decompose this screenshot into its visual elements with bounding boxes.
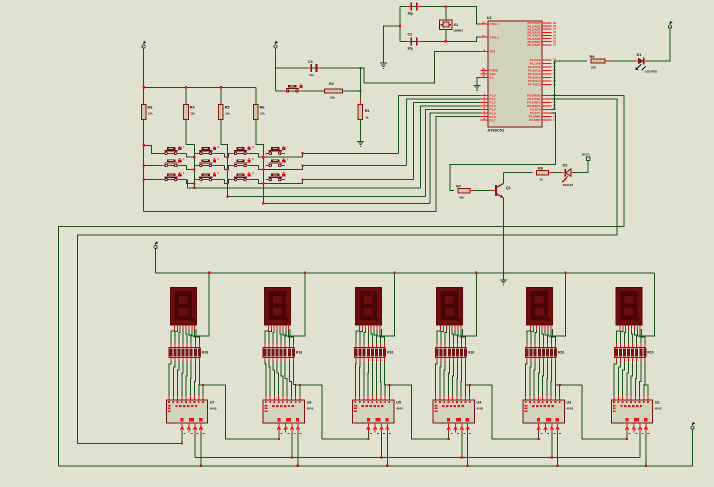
svg-text:4543: 4543 [566,407,573,411]
resistor R7 [456,185,470,200]
wire RN2 to U6 [265,357,300,399]
wire P3.0 frame outer [59,95,624,466]
wire display 5 pins fan [527,325,555,347]
wire rail tap display 1 [196,272,210,337]
wire display 2 pins fan [265,325,293,347]
node row2 junctions [193,164,303,170]
svg-text:R8: R8 [538,167,543,171]
svg-text:R16: R16 [202,351,208,355]
wire column 3 [221,120,228,197]
wire L3 [263,202,430,204]
crystal X1 [440,20,464,33]
svg-text:10u: 10u [309,73,314,77]
wire left vertical [399,7,401,42]
wire display 6 pins fan [616,325,644,347]
wire to ground [383,26,400,63]
wire bus1 [195,457,640,459]
node L1-col2 [193,187,195,189]
svg-text:4543: 4543 [476,407,483,411]
wire row2 left [144,165,162,167]
node row3-col1 [143,179,145,181]
wire L4 [144,211,437,213]
svg-text:1k: 1k [365,116,369,120]
transistor Q1 [492,184,511,198]
wire P3.4 to R9 [552,61,587,110]
wire column 4 [256,120,263,204]
resistor R8 [536,167,548,182]
svg-text:AT89C51: AT89C51 [487,128,505,133]
button keypad r1c1 [161,145,185,155]
svg-text:U5: U5 [396,401,401,405]
node crystal-C2 junction [445,40,447,42]
wire R1 bottom [359,120,361,142]
svg-text:U7: U7 [210,401,215,405]
resistor network RN1 [169,347,208,357]
wire RN5 to U3 [526,357,560,399]
op-amp U4 latch-decoder [433,400,483,423]
wire U2 chain-in [626,432,628,440]
resistor network RN4 [435,347,474,357]
wire U5 to bus2 [386,432,388,467]
wire R8 to D2 [548,172,560,174]
wire RN4 to U4 [436,357,470,399]
node row3 junctions [193,179,303,185]
wire RN6 to U2 [614,357,648,399]
button keypad r3c3 [231,171,255,181]
wire cascade U7 to U6 [202,384,279,439]
power terminal keypad [142,41,146,48]
svg-text:30p: 30p [408,12,414,16]
wire P1.5 bus [430,113,480,203]
resistor R2 [325,82,343,100]
wire P1.2 bus [413,102,480,179]
wire keypad row 2 [161,166,406,170]
display DS3 7-segment [356,288,382,326]
node row1 junctions [193,152,303,158]
node row2-col1 [143,164,145,166]
svg-text:R16: R16 [296,351,302,355]
svg-text:-: - [287,171,288,175]
wire XTAL2 bottom [400,37,481,41]
wire U6 bottom pins [277,423,301,434]
svg-text:4543: 4543 [396,407,403,411]
svg-text:RST: RST [490,50,496,54]
wire bus2 riser [692,429,694,466]
button keypad r1c4 [265,145,288,155]
op-amp U5 latch-decoder [353,400,403,423]
button keypad r2c4 [265,157,289,167]
display DS1 7-segment [170,288,196,326]
wire U6 chain-in [278,432,280,440]
ground R1 [357,141,364,147]
wire RN3 to U5 [355,357,389,399]
display DS5 7-segment [527,288,553,326]
wire rail tap display 2 [290,272,306,337]
capacitor C3 [307,60,321,77]
wire L2 [228,196,426,198]
svg-text:P3.7/RD: P3.7/RD [529,118,541,122]
svg-text:1k: 1k [540,178,544,182]
svg-text:10k: 10k [459,196,464,200]
svg-text:R16: R16 [647,351,653,355]
svg-text:D2: D2 [563,164,568,168]
wire R2 row [276,90,361,92]
svg-text:XTAL1: XTAL1 [490,22,500,26]
wire C3 row [276,67,361,69]
wire P1.3 bus [420,106,480,188]
wire anode rail [156,272,655,274]
wire U2 to bus1 [639,432,641,457]
wire column 2 [186,120,194,188]
svg-text:X1: X1 [454,23,459,27]
wire cascade U6 to U5 [299,384,369,439]
svg-text:R2: R2 [329,82,334,86]
wire U6 to bus2 [297,432,299,467]
wire rail tap display 3 [381,272,395,337]
wire U5 chain-in [367,432,369,440]
node row1-col1 [143,144,145,146]
button keypad r2c3 [231,157,255,167]
svg-text:R3: R3 [148,106,153,110]
wire U7 to bus1 [194,432,196,457]
wire P3.5 to R7 [450,113,556,191]
wire R7 to base [470,190,492,192]
svg-text:P0.7/AD7: P0.7/AD7 [527,43,540,47]
wire U7 bottom pins [180,423,204,434]
wire column 1 [143,120,145,212]
node rail junctions [143,86,222,88]
resistor network RN6 [615,347,654,357]
op-amp U1 AT89C51 MCU [480,15,556,133]
svg-text:R16: R16 [558,351,564,355]
wire U4 to bus2 [467,432,469,467]
display DS2 7-segment [264,288,290,326]
wire U3 bottom pins [537,423,561,434]
power terminal LED [668,21,672,28]
power terminal reset [274,41,278,48]
wire cascade U3 to U2 [559,384,627,439]
button keypad r3c2 [196,171,220,181]
resistor network RN2 [263,347,302,357]
svg-text:U3: U3 [566,401,571,405]
wire U5 to bus1 [380,432,382,458]
diode D2 [561,164,575,188]
resistor R1 [358,99,369,124]
wire cascade U5 to U4 [388,384,448,439]
op-amp U2 latch-decoder [611,400,661,423]
ground Q1 [500,280,507,286]
wire U2 to bus2 [645,432,647,467]
wire U7 chain-in [181,432,183,444]
terminal BUZ1 [582,153,590,161]
wire U2 bottom pins [625,423,649,434]
svg-text:1N4148: 1N4148 [563,183,574,187]
svg-text:C2: C2 [408,33,413,37]
wire RN1 to U7 [169,357,203,399]
wire U4 chain-in [448,432,450,440]
wire keypad row 3 [161,180,413,184]
wire keypad row 1 [161,153,399,157]
wire P3.1 frame inner [77,99,617,444]
svg-text:P1.7: P1.7 [490,118,497,122]
wire U6 to bus1 [291,432,293,458]
svg-text:U1: U1 [487,15,493,20]
svg-text:R16: R16 [468,351,474,355]
ground EA [473,85,480,91]
wire display vcc [155,249,157,273]
wire row3 left [144,179,162,181]
svg-text:D1: D1 [637,53,642,57]
op-amp U3 latch-decoder [523,400,573,423]
op-amp U6 latch-decoder [263,400,313,423]
resistor R5 [219,87,231,123]
wire display 3 pins fan [356,325,384,347]
svg-text:Q1: Q1 [506,186,511,190]
wire U3 chain-in [538,432,540,440]
svg-text:30p: 30p [408,47,414,51]
svg-text:R16: R16 [387,351,393,355]
svg-text:C3: C3 [308,60,313,64]
wire rail tap display 5 [552,272,566,337]
wire P1.4 bus [426,110,481,197]
svg-text:/: / [287,145,288,149]
wire vcc down [275,48,277,91]
svg-text:R1: R1 [365,109,370,113]
svg-text:R5: R5 [225,106,230,110]
svg-text:BUZ1: BUZ1 [582,153,590,157]
op-amp U7 latch-decoder [166,400,216,423]
node L3-col4 [262,202,264,204]
svg-text:10k: 10k [225,112,230,116]
button reset [283,84,303,93]
svg-text:12MHZ: 12MHZ [453,29,463,33]
wire vcc keypad [143,48,145,87]
svg-text:LED-RED: LED-RED [645,70,657,74]
svg-text:4543: 4543 [210,407,217,411]
button keypad r2c2 [196,157,220,167]
node crystal-C1 junction [445,5,447,7]
wire crystal top [445,7,447,21]
wire bus2 [59,465,693,467]
button keypad r3c4 [265,171,288,181]
svg-text:U2: U2 [655,401,660,405]
svg-text:4543: 4543 [655,407,662,411]
resistor R6 [254,87,266,123]
node RST junctions [359,67,361,92]
wire display 4 pins fan [437,325,465,347]
wire D1 to power [648,28,671,61]
wire R9 to D1 [605,60,635,62]
capacitor C2 [407,33,421,51]
capacitor C1 [407,3,421,16]
wire U7 to bus2 [200,432,202,467]
resistor network RN3 [354,347,393,357]
svg-text:R7: R7 [456,185,461,189]
diode D1 LED [635,53,657,74]
resistor R9 [590,55,605,70]
svg-text:P2.7/A15: P2.7/A15 [528,83,541,87]
wire XTAL1 top [400,7,481,24]
wire col2 drop [186,180,188,188]
node gnd branch junction [399,25,401,27]
svg-text:R9: R9 [590,55,595,59]
wire pullup rail [144,86,256,88]
wire U5 bottom pins [367,423,391,434]
svg-text:10k: 10k [330,96,335,100]
wire emitter down [502,198,504,280]
svg-text:10k: 10k [148,112,153,116]
wire U4 to bus1 [461,432,463,458]
wire display 1 pins fan [171,325,199,347]
svg-text:R6: R6 [260,106,265,110]
wire D2 to terminal [574,161,588,173]
wire rail tap display 6 [642,273,655,336]
svg-text:U6: U6 [307,401,312,405]
display DS6 7-segment [616,288,642,326]
wire rail tap display 4 [462,272,477,337]
wire U3 to bus2 [557,432,559,467]
wire P1.6 bus [436,117,480,212]
svg-text:XTAL2: XTAL2 [490,35,500,39]
power terminal displays [154,241,158,248]
wire collector to R8 [503,173,532,184]
node L2-col3 [226,196,228,198]
resistor network RN5 [525,347,564,357]
button keypad r1c3 [231,145,255,155]
power terminal bottom right [691,422,695,429]
svg-text:10k: 10k [190,112,195,116]
resistor R4 [184,87,196,123]
resistor R3 [141,87,153,123]
wire crystal bottom [445,29,447,41]
wire P1.1 bus [407,99,481,166]
wire U4 bottom pins [447,423,471,434]
display DS4 7-segment [437,288,463,326]
wire R1 top [359,68,361,104]
svg-text:10k: 10k [260,112,265,116]
wire L1 [187,187,420,189]
ground [380,63,387,69]
wire RST to MCU [360,52,480,84]
button keypad r3c1 [161,171,185,181]
button keypad r1c2 [196,145,220,155]
wire EA to ground [477,78,481,86]
wire U3 to bus1 [551,432,553,458]
wire P1.0 bus [399,95,481,153]
svg-text:220: 220 [591,66,596,70]
wire cascade U4 to U3 [469,384,539,439]
svg-text:4543: 4543 [307,407,314,411]
wire row1 left jog [144,145,162,153]
button keypad r2c1 [161,157,185,167]
